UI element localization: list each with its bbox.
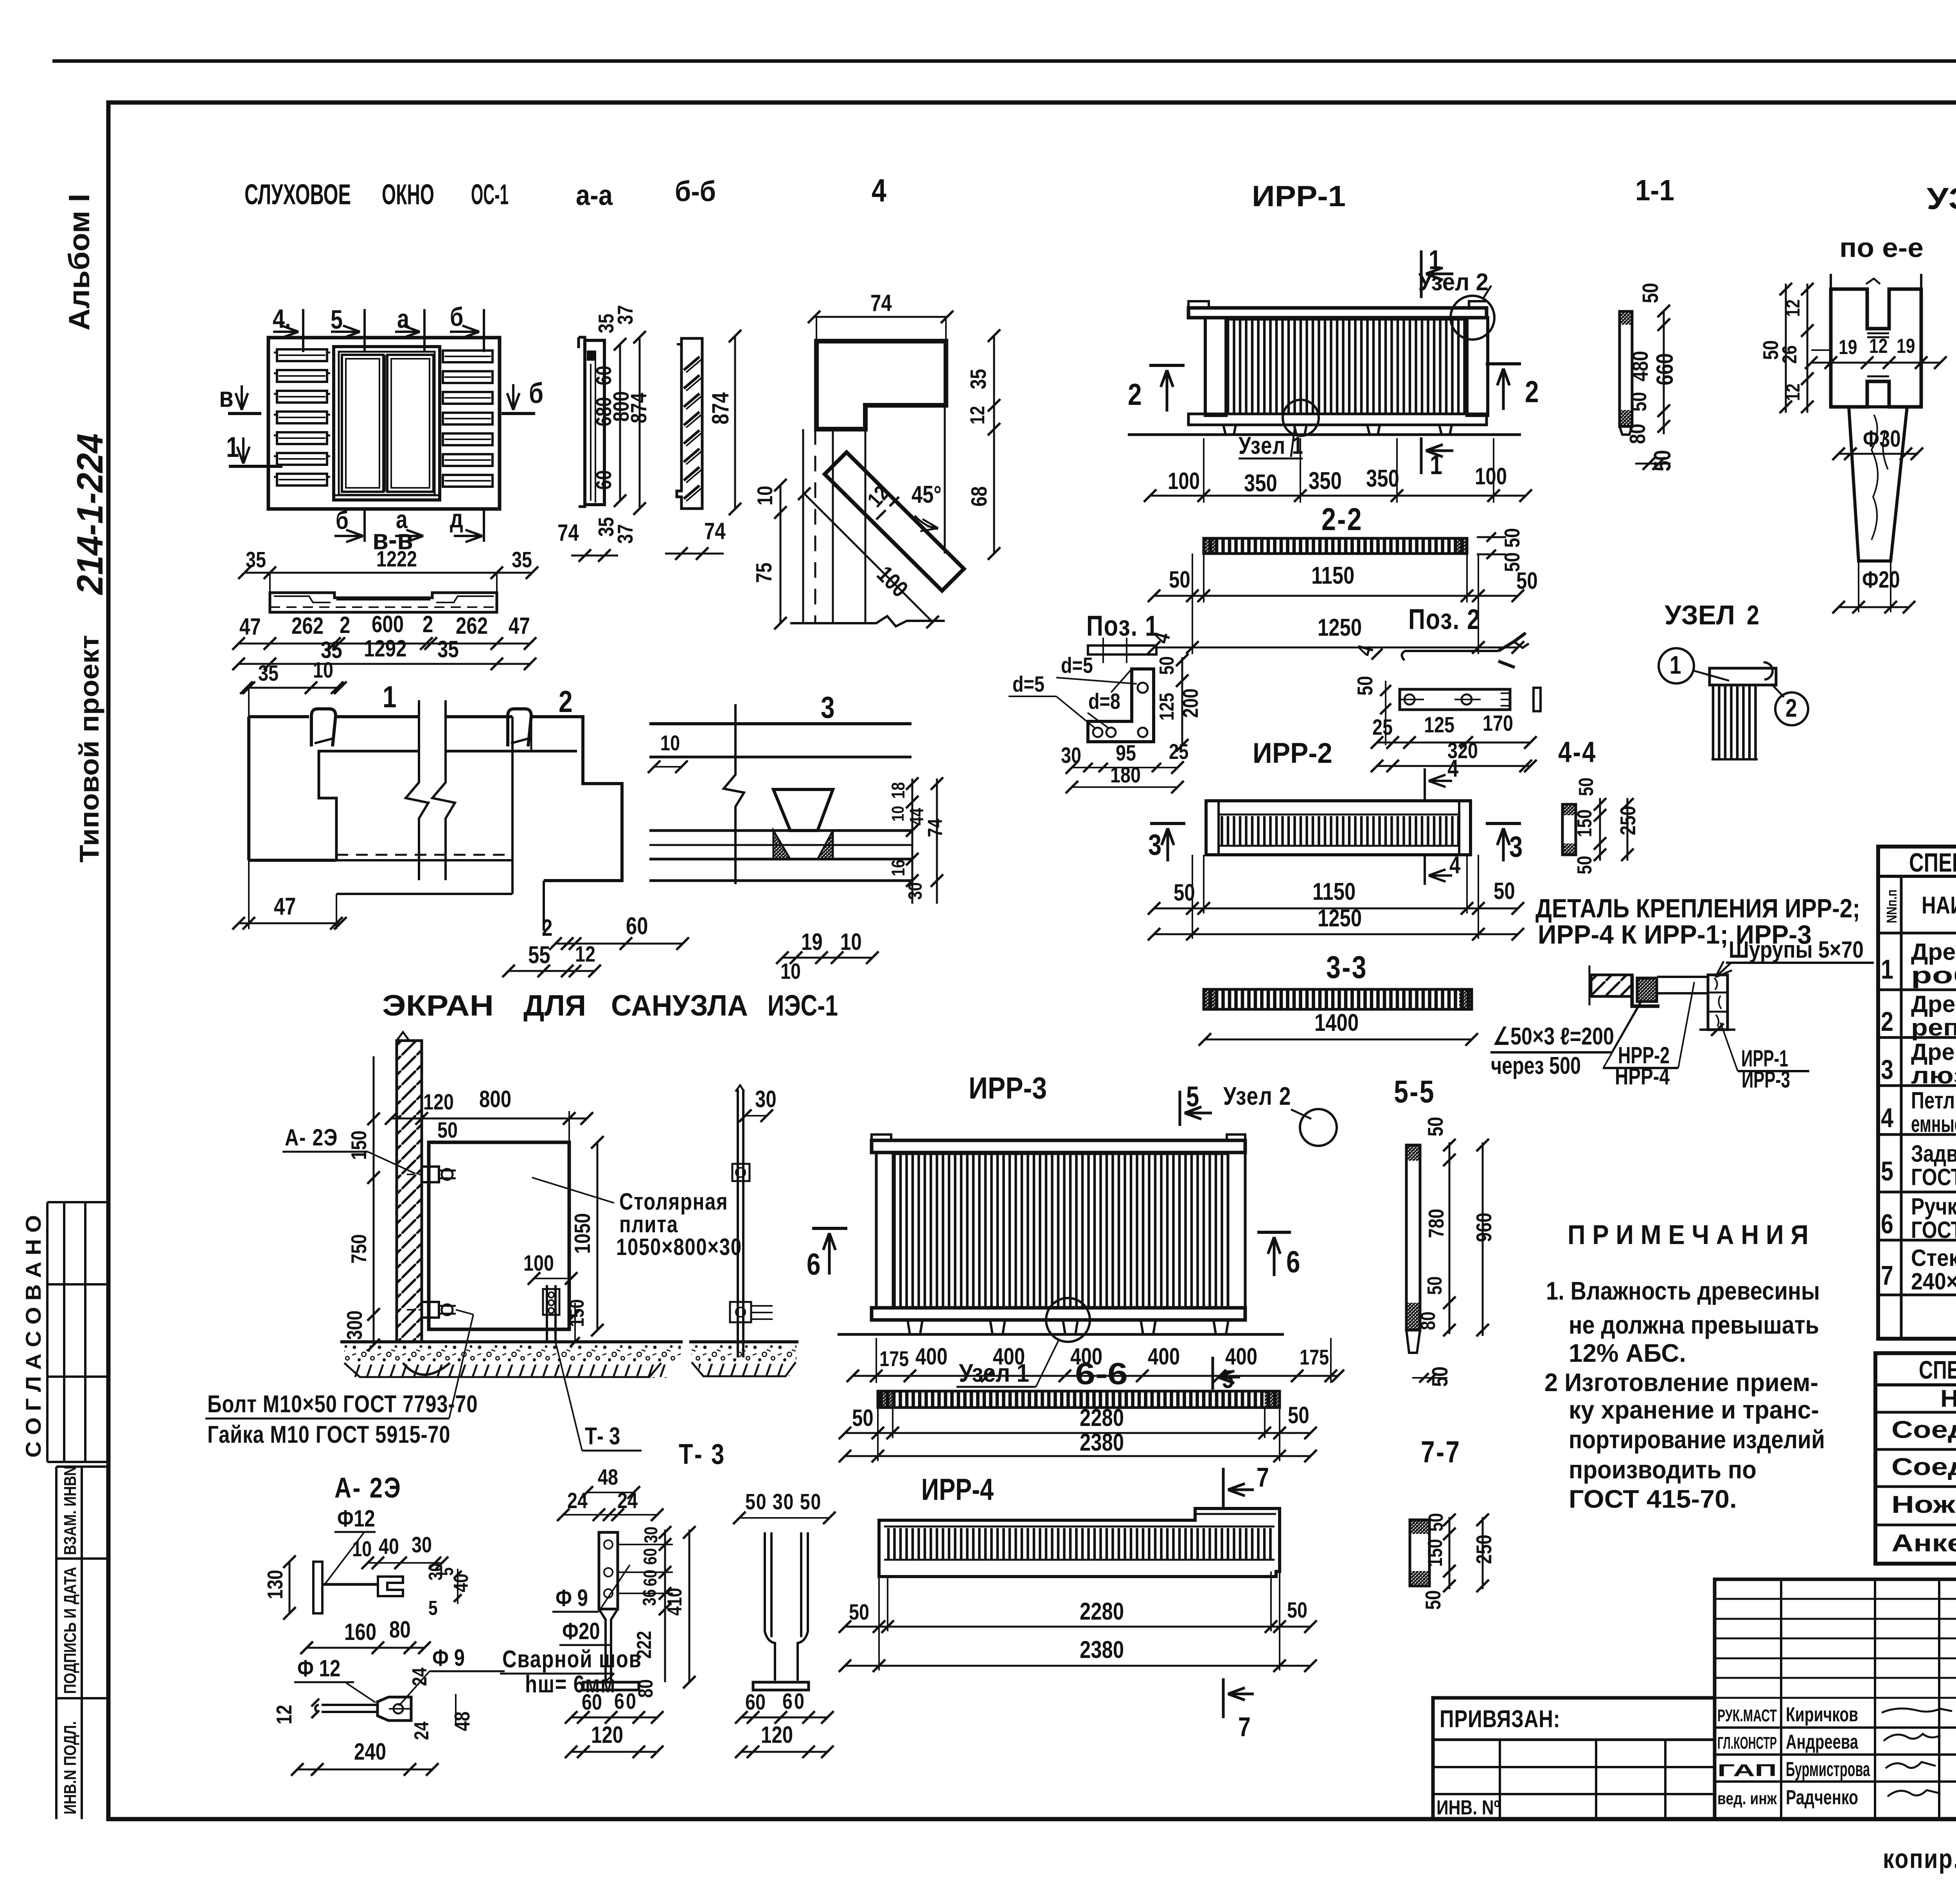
svg-text:А- 2Э: А- 2Э: [285, 1124, 338, 1151]
left stamp strip ВЗАМ.ИНВ / ПОДПИСЬ И ДАТА / ИНВ.N ПОДЛ.: [56, 1466, 108, 1819]
section 4-4 bar: [1558, 735, 1640, 874]
svg-text:Ф20: Ф20: [562, 1618, 600, 1644]
svg-text:6: 6: [1881, 1208, 1893, 1239]
svg-text:150: 150: [1573, 809, 1596, 837]
svg-text:47: 47: [509, 612, 530, 639]
svg-text:Древесина ко-: Древесина ко-: [1911, 939, 1956, 965]
svg-text:Гайка М10 ГОСТ 5915-70: Гайка М10 ГОСТ 5915-70: [207, 1421, 450, 1448]
svg-text:6-6: 6-6: [1075, 1356, 1128, 1391]
svg-text:2: 2: [542, 914, 552, 941]
svg-text:ПОДПИСЬ И ДАТА: ПОДПИСЬ И ДАТА: [61, 1567, 80, 1694]
screen leg Т-3 side view: [689, 1085, 798, 1376]
svg-text:68: 68: [967, 486, 992, 507]
svg-text:d=5: d=5: [1012, 672, 1045, 697]
svg-text:3: 3: [1148, 828, 1161, 861]
svg-text:180: 180: [1110, 763, 1141, 787]
svg-text:50: 50: [1575, 778, 1598, 796]
svg-text:100: 100: [523, 1251, 554, 1276]
svg-text:80: 80: [1417, 1312, 1440, 1330]
svg-text:Т- 3: Т- 3: [679, 1438, 726, 1470]
svg-text:ВЗАМ. ИНВN: ВЗАМ. ИНВN: [61, 1466, 80, 1555]
svg-text:5: 5: [1881, 1156, 1893, 1187]
svg-text:48: 48: [598, 1465, 618, 1490]
svg-text:емные Б-75 ГОСТ 5088-72: емные Б-75 ГОСТ 5088-72: [1911, 1111, 1956, 1137]
svg-text:350: 350: [1309, 467, 1342, 494]
svg-text:копир. Алферова: копир. Алферова: [1883, 1843, 1956, 1874]
materials specification table: [1878, 847, 1956, 1339]
svg-text:50: 50: [1156, 656, 1178, 675]
svg-text:Анкер крепления экрана: Анкер крепления экрана: [1891, 1530, 1956, 1557]
svg-text:1222: 1222: [376, 547, 417, 572]
svg-text:37: 37: [613, 305, 637, 325]
section markers 1 and 2 for ИРР-1: [1128, 245, 1539, 480]
svg-text:1250: 1250: [1318, 614, 1362, 641]
svg-text:Ручки скобы В-65: Ручки скобы В-65: [1911, 1194, 1956, 1220]
svg-text:2-2: 2-2: [1321, 502, 1363, 537]
svg-text:10: 10: [888, 806, 908, 822]
svg-text:80: 80: [635, 1679, 657, 1698]
svg-text:ИНВ. Nº: ИНВ. Nº: [1436, 1796, 1500, 1819]
dimension chain 100-350-350-350-100 under ИРР-1: [1144, 438, 1532, 503]
section б-б louver strip: [665, 330, 741, 560]
svg-text:750: 750: [347, 1234, 371, 1264]
svg-text:СПЕЦИФИКАЦИЯ: СПЕЦИФИКАЦИЯ: [1909, 848, 1956, 877]
svg-text:1150: 1150: [1312, 878, 1356, 905]
svg-text:ГОСТ 415-70.: ГОСТ 415-70.: [1569, 1485, 1737, 1513]
svg-text:3-3: 3-3: [1326, 949, 1368, 985]
title block with project info: [1433, 1579, 1956, 1824]
svg-text:4.: 4.: [273, 304, 291, 334]
svg-text:47: 47: [274, 893, 296, 920]
svg-text:60: 60: [591, 470, 616, 490]
svg-text:50: 50: [849, 1600, 869, 1625]
svg-text:60: 60: [591, 366, 616, 385]
svg-text:d=8: d=8: [1088, 689, 1120, 714]
svg-text:ГОСТ 5087-72: ГОСТ 5087-72: [1911, 1217, 1956, 1243]
svg-text:2: 2: [1785, 694, 1797, 722]
svg-text:ЭКРАН: ЭКРАН: [382, 989, 494, 1022]
svg-text:50: 50: [1169, 566, 1190, 593]
svg-text:а-а: а-а: [576, 180, 613, 211]
svg-text:4: 4: [1447, 755, 1459, 782]
svg-text:47: 47: [239, 613, 261, 640]
svg-text:60: 60: [626, 913, 648, 940]
svg-text:50: 50: [1638, 283, 1663, 303]
svg-text:30: 30: [1061, 743, 1081, 768]
svg-text:Соединительные планки: Соединительные планки: [1891, 1454, 1956, 1481]
svg-text:125: 125: [1424, 713, 1454, 737]
svg-text:4: 4: [872, 173, 886, 209]
section В-В profile strip with dims: [232, 547, 538, 670]
svg-text:ДЛЯ: ДЛЯ: [523, 989, 586, 1022]
svg-text:24: 24: [567, 1489, 588, 1513]
svg-text:75: 75: [752, 563, 777, 583]
bottom annotations копир and inventory number: [1883, 1841, 1956, 1874]
svg-text:250: 250: [1616, 806, 1640, 835]
svg-text:hш= 6мм: hш= 6мм: [525, 1671, 616, 1698]
svg-text:10: 10: [840, 928, 862, 955]
svg-text:Узел 1: Узел 1: [959, 1359, 1029, 1387]
svg-text:50: 50: [1758, 340, 1783, 360]
svg-text:вед. инж: вед. инж: [1717, 1789, 1777, 1808]
svg-text:Древесина жа-: Древесина жа-: [1911, 1039, 1956, 1065]
svg-text:74: 74: [924, 818, 947, 837]
svg-text:214-1-224: 214-1-224: [69, 433, 110, 595]
svg-text:1150: 1150: [1311, 562, 1354, 589]
svg-text:240: 240: [354, 1738, 386, 1765]
svg-text:2280: 2280: [1080, 1404, 1124, 1431]
svg-text:5: 5: [1186, 1081, 1199, 1113]
svg-text:ДЕТАЛЬ КРЕПЛЕНИЯ ИРР-2;: ДЕТАЛЬ КРЕПЛЕНИЯ ИРР-2;: [1535, 894, 1860, 923]
svg-text:60: 60: [640, 1570, 660, 1586]
svg-text:б-б: б-б: [675, 176, 716, 207]
svg-text:люзей: люзей: [1911, 1063, 1956, 1089]
svg-text:1: 1: [1881, 954, 1893, 985]
svg-text:12: 12: [272, 1705, 296, 1724]
svg-text:120: 120: [761, 1721, 793, 1748]
svg-text:170: 170: [1483, 711, 1513, 736]
svg-text:10: 10: [660, 731, 680, 755]
svg-text:262: 262: [291, 612, 324, 639]
svg-text:б: б: [529, 378, 543, 409]
svg-text:∠50×3 ℓ=200: ∠50×3 ℓ=200: [1493, 1023, 1614, 1050]
svg-text:6: 6: [782, 1689, 793, 1714]
svg-text:35: 35: [512, 548, 532, 572]
svg-text:50: 50: [1494, 877, 1515, 904]
svg-text:222: 222: [633, 1631, 656, 1659]
svg-text:175: 175: [1300, 1345, 1329, 1369]
svg-text:5: 5: [1222, 1365, 1234, 1393]
svg-text:660: 660: [1651, 353, 1678, 385]
svg-text:1. Влажность древесины: 1. Влажность древесины: [1546, 1277, 1820, 1305]
node 1 detail по е-е H-block with wooden leg: [1758, 274, 1956, 613]
notes ПРИМЕЧАНИЯ text block: [1544, 1219, 1825, 1513]
svg-text:24: 24: [410, 1721, 433, 1740]
svg-text:50: 50: [1573, 856, 1596, 874]
svg-text:36: 36: [639, 1589, 660, 1606]
svg-text:480: 480: [1628, 351, 1653, 381]
svg-text:б: б: [450, 302, 463, 332]
svg-text:Сварной шов: Сварной шов: [502, 1646, 642, 1673]
svg-text:50: 50: [437, 1118, 458, 1143]
svg-text:производить по: производить по: [1569, 1455, 1756, 1484]
window frame corner detail 2: [502, 685, 689, 977]
svg-text:55: 55: [528, 942, 550, 969]
svg-text:3: 3: [821, 690, 835, 725]
svg-text:Болт М10×50 ГОСТ 7793-70: Болт М10×50 ГОСТ 7793-70: [207, 1391, 478, 1418]
svg-text:3: 3: [1881, 1054, 1893, 1085]
svg-text:в: в: [219, 381, 234, 413]
svg-text:Стекло оконное: Стекло оконное: [1911, 1245, 1956, 1271]
svg-text:12% АБС.: 12% АБС.: [1569, 1339, 1686, 1367]
svg-text:Узел 2: Узел 2: [1223, 1082, 1291, 1110]
svg-text:Киричков: Киричков: [1786, 1703, 1858, 1726]
connecting plate Поз.1 detail: [1009, 610, 1203, 793]
svg-text:80: 80: [389, 1616, 411, 1643]
svg-text:А- 2Э: А- 2Э: [334, 1472, 402, 1504]
heading ЭКРАН ДЛЯ САНУЗЛА ИЭС-1: [382, 989, 838, 1022]
svg-text:12: 12: [1869, 335, 1888, 358]
svg-text:РУК.МАСТ: РУК.МАСТ: [1717, 1706, 1777, 1725]
svg-text:Поз. 1: Поз. 1: [1086, 610, 1159, 642]
section marks around window plan: [219, 302, 543, 556]
window frame corner detail 1: [232, 658, 512, 930]
svg-text:40: 40: [450, 1574, 473, 1592]
svg-text:120: 120: [591, 1721, 623, 1748]
svg-text:2: 2: [422, 611, 433, 637]
svg-text:175: 175: [879, 1347, 909, 1371]
svg-text:ку хранение и транс-: ку хранение и транс-: [1569, 1395, 1819, 1424]
svg-text:50: 50: [1174, 879, 1195, 906]
svg-text:10: 10: [780, 959, 801, 984]
svg-text:1: 1: [383, 680, 397, 714]
svg-text:через 500: через 500: [1491, 1052, 1581, 1079]
svg-text:960: 960: [1472, 1213, 1496, 1242]
screen leg Т-3 fabrication details: [500, 1438, 836, 1758]
svg-text:50: 50: [1287, 1598, 1307, 1623]
svg-text:60: 60: [582, 1690, 602, 1715]
svg-text:ОКНО: ОКНО: [382, 179, 434, 210]
svg-text:25: 25: [1169, 739, 1188, 764]
svg-text:Шурупы 5×70: Шурупы 5×70: [1729, 937, 1864, 963]
svg-text:410: 410: [663, 1588, 686, 1616]
svg-text:50: 50: [1288, 1402, 1309, 1428]
screen ИЭС-1 elevation with wall and ground: [205, 1032, 742, 1451]
svg-text:350: 350: [1244, 470, 1277, 497]
svg-text:130: 130: [263, 1570, 287, 1599]
left stamp СОГЛАСОВАНО: [21, 1202, 108, 1462]
svg-text:1-1: 1-1: [1635, 174, 1674, 207]
anchor А-2Э details: [263, 1472, 505, 1776]
svg-text:Радченко: Радченко: [1786, 1786, 1858, 1809]
svg-text:780: 780: [1424, 1209, 1448, 1238]
svg-text:1: 1: [1670, 651, 1681, 679]
svg-text:10: 10: [753, 486, 777, 505]
svg-text:48: 48: [450, 1712, 474, 1731]
svg-text:Ф20: Ф20: [1862, 566, 1900, 593]
svg-text:ИРР-2: ИРР-2: [1253, 737, 1332, 769]
svg-text:2: 2: [1747, 600, 1759, 631]
svg-text:Ф12: Ф12: [337, 1505, 375, 1532]
svg-text:120: 120: [423, 1090, 454, 1115]
svg-text:1050: 1050: [570, 1213, 595, 1254]
svg-text:ГЛ.КОНСТР: ГЛ.КОНСТР: [1717, 1733, 1777, 1753]
left margin label Альбом I: [63, 194, 95, 331]
svg-text:5-5: 5-5: [1394, 1074, 1435, 1109]
section 7-7 bar: [1410, 1435, 1496, 1610]
svg-text:18: 18: [888, 782, 908, 799]
svg-text:50: 50: [1353, 676, 1377, 696]
svg-text:5: 5: [331, 305, 343, 334]
svg-text:УЗЕЛ: УЗЕЛ: [1665, 600, 1735, 630]
svg-text:d=5: d=5: [1061, 653, 1093, 678]
svg-text:2380: 2380: [1080, 1429, 1124, 1456]
svg-text:35: 35: [966, 369, 991, 389]
left margin label Типовой проект: [74, 635, 104, 863]
svg-text:П Р И М Е Ч А Н И Я: П Р И М Е Ч А Н И Я: [1568, 1219, 1809, 1250]
detail of fastening ИРР-2 ИРР-4 to ИРР-1 ИРР-3: [1490, 894, 1874, 1093]
svg-text:Ножка опирания экрана: Ножка опирания экрана: [1891, 1491, 1956, 1518]
svg-text:ИРР-4: ИРР-4: [921, 1472, 994, 1507]
svg-text:37: 37: [613, 524, 637, 544]
window plan ОС-1 with louvers: [268, 338, 500, 509]
svg-text:1: 1: [1430, 449, 1442, 480]
svg-text:ГОСТ 5090-65: ГОСТ 5090-65: [1911, 1164, 1956, 1190]
svg-text:7: 7: [1881, 1260, 1893, 1291]
svg-text:Альбом I: Альбом I: [63, 194, 95, 331]
svg-text:ИНВ.N ПОДЛ.: ИНВ.N ПОДЛ.: [61, 1721, 80, 1814]
svg-text:24: 24: [408, 1667, 431, 1686]
section 5-5 bar: [1394, 1074, 1496, 1387]
svg-text:Т- 3: Т- 3: [585, 1423, 620, 1450]
svg-text:1050×800×30: 1050×800×30: [616, 1233, 742, 1260]
svg-text:50: 50: [1421, 1590, 1445, 1610]
svg-text:125: 125: [1156, 693, 1178, 721]
svg-text:74: 74: [870, 289, 892, 316]
svg-text:50: 50: [1627, 392, 1651, 412]
svg-text:10: 10: [313, 658, 333, 683]
svg-text:2: 2: [1128, 378, 1142, 412]
svg-text:Поз. 2: Поз. 2: [1408, 604, 1481, 635]
svg-text:1400: 1400: [1314, 1009, 1359, 1036]
metal specification table: [1875, 1353, 1956, 1564]
svg-text:60: 60: [640, 1548, 660, 1565]
svg-text:19: 19: [1839, 336, 1857, 359]
svg-text:не должна превышать: не должна превышать: [1569, 1311, 1819, 1339]
svg-text:2: 2: [340, 611, 350, 638]
svg-text:160: 160: [344, 1618, 376, 1645]
svg-text:Ф 12: Ф 12: [297, 1655, 340, 1681]
svg-text:НАИМЕНОВАНИЕ: НАИМЕНОВАНИЕ: [1922, 892, 1956, 919]
svg-text:5: 5: [428, 1597, 438, 1620]
svg-text:74: 74: [557, 519, 579, 546]
svg-text:ИЭС-1: ИЭС-1: [768, 989, 838, 1022]
svg-text:2380: 2380: [1080, 1636, 1124, 1663]
svg-text:35: 35: [437, 636, 459, 662]
svg-text:6: 6: [614, 1689, 624, 1714]
svg-text:100: 100: [1168, 467, 1200, 494]
svg-text:874: 874: [707, 392, 733, 424]
svg-text:50: 50: [1500, 528, 1524, 548]
svg-text:80: 80: [1625, 424, 1650, 444]
svg-text:Ф30: Ф30: [1863, 425, 1901, 452]
left margin label 214-1-224: [69, 433, 110, 595]
svg-text:50: 50: [1424, 1277, 1446, 1295]
svg-text:50: 50: [1425, 1513, 1447, 1532]
svg-text:12: 12: [966, 406, 989, 424]
heading ИРР-1: [1252, 180, 1346, 212]
svg-text:10: 10: [352, 1537, 372, 1561]
svg-text:6: 6: [1286, 1245, 1300, 1279]
radiator grille ИРР-3 elevation: [807, 1071, 1344, 1393]
svg-text:400: 400: [915, 1343, 947, 1370]
svg-text:50: 50: [1516, 567, 1538, 594]
svg-text:1250: 1250: [1318, 905, 1362, 932]
svg-text:7-7: 7-7: [1421, 1435, 1461, 1469]
heading по е-е: [1839, 232, 1924, 263]
section 2-2 hatched strip with dims: [1148, 502, 1538, 654]
radiator grille ИРР-2 elevation: [1148, 737, 1524, 940]
radiator grille ИРР-4 elevation: [839, 1462, 1317, 1742]
svg-text:Петли оконные разъ-: Петли оконные разъ-: [1911, 1088, 1956, 1114]
svg-text:4-4: 4-4: [1558, 735, 1597, 768]
svg-text:Андреева: Андреева: [1786, 1731, 1859, 1753]
svg-text:NNп.п: NNп.п: [1884, 890, 1899, 923]
svg-text:портирование изделий: портирование изделий: [1569, 1425, 1825, 1454]
svg-text:50 30 50: 50 30 50: [745, 1490, 822, 1514]
svg-text:50: 50: [1423, 1117, 1447, 1136]
svg-text:3: 3: [1509, 830, 1523, 863]
svg-text:0: 0: [794, 1689, 804, 1714]
svg-text:350: 350: [1366, 465, 1399, 492]
svg-text:60: 60: [745, 1690, 766, 1715]
svg-text:СЛУХОВОЕ: СЛУХОВОЕ: [244, 179, 351, 210]
svg-text:19: 19: [801, 928, 823, 955]
svg-text:874: 874: [627, 393, 651, 423]
heading 4: [872, 173, 886, 209]
svg-text:7: 7: [1238, 1712, 1251, 1742]
svg-text:250: 250: [1472, 1535, 1496, 1564]
svg-text:4: 4: [1881, 1102, 1893, 1133]
svg-text:2: 2: [1881, 1006, 1893, 1037]
svg-text:35: 35: [246, 548, 266, 572]
svg-text:24: 24: [617, 1489, 638, 1513]
svg-text:300: 300: [342, 1311, 367, 1340]
svg-text:ПРИВЯЗАН:: ПРИВЯЗАН:: [1440, 1706, 1560, 1733]
svg-text:12: 12: [575, 942, 595, 967]
svg-text:30: 30: [412, 1533, 432, 1557]
svg-text:реплета: реплета: [1911, 1014, 1956, 1041]
svg-text:800: 800: [479, 1086, 511, 1112]
svg-text:600: 600: [372, 611, 404, 637]
heading УЗЕЛ 1: [1927, 181, 1956, 216]
svg-text:ИРР-3: ИРР-3: [969, 1071, 1047, 1105]
svg-text:4: 4: [1449, 852, 1461, 879]
svg-text:74: 74: [704, 518, 726, 544]
node 2 detail with callouts 1 and 2: [1659, 600, 1808, 759]
svg-text:30: 30: [641, 1526, 661, 1543]
svg-text:6: 6: [807, 1247, 821, 1281]
heading 1-1: [1635, 174, 1674, 207]
svg-text:35: 35: [258, 661, 279, 686]
svg-text:150: 150: [347, 1131, 371, 1160]
section 1-1 slat bar: [1620, 283, 1678, 471]
svg-text:Наименование: Наименование: [1940, 1385, 1956, 1412]
svg-text:95: 95: [1116, 741, 1136, 766]
window frame detail 3 with dovetail: [648, 690, 947, 984]
svg-text:1292: 1292: [364, 635, 406, 662]
svg-text:16: 16: [888, 859, 908, 876]
svg-text:200: 200: [1178, 689, 1203, 718]
svg-text:240×695 - 2шт: 240×695 - 2шт: [1911, 1268, 1956, 1295]
section 3-3 hatched strip: [1199, 949, 1478, 1046]
svg-text:Ф 9: Ф 9: [556, 1584, 588, 1611]
svg-text:ГАП: ГАП: [1717, 1761, 1777, 1780]
svg-text:400: 400: [1148, 1343, 1180, 1370]
svg-text:2280: 2280: [1080, 1598, 1124, 1625]
svg-text:45°: 45°: [911, 481, 942, 508]
svg-text:робки: робки: [1911, 962, 1956, 989]
svg-text:С О Г Л А С О В А Н О: С О Г Л А С О В А Н О: [21, 1215, 45, 1458]
svg-text:150: 150: [1424, 1539, 1447, 1567]
svg-text:100: 100: [1475, 463, 1507, 489]
svg-text:2: 2: [1525, 375, 1539, 409]
svg-text:1: 1: [1429, 245, 1441, 275]
section 6-6 hatched strip: [839, 1391, 1317, 1462]
corner detail 4 with 45 deg bar: [752, 289, 1000, 629]
svg-text:ОС-1: ОС-1: [471, 179, 509, 210]
svg-text:УЗЕЛ: УЗЕЛ: [1927, 181, 1956, 216]
